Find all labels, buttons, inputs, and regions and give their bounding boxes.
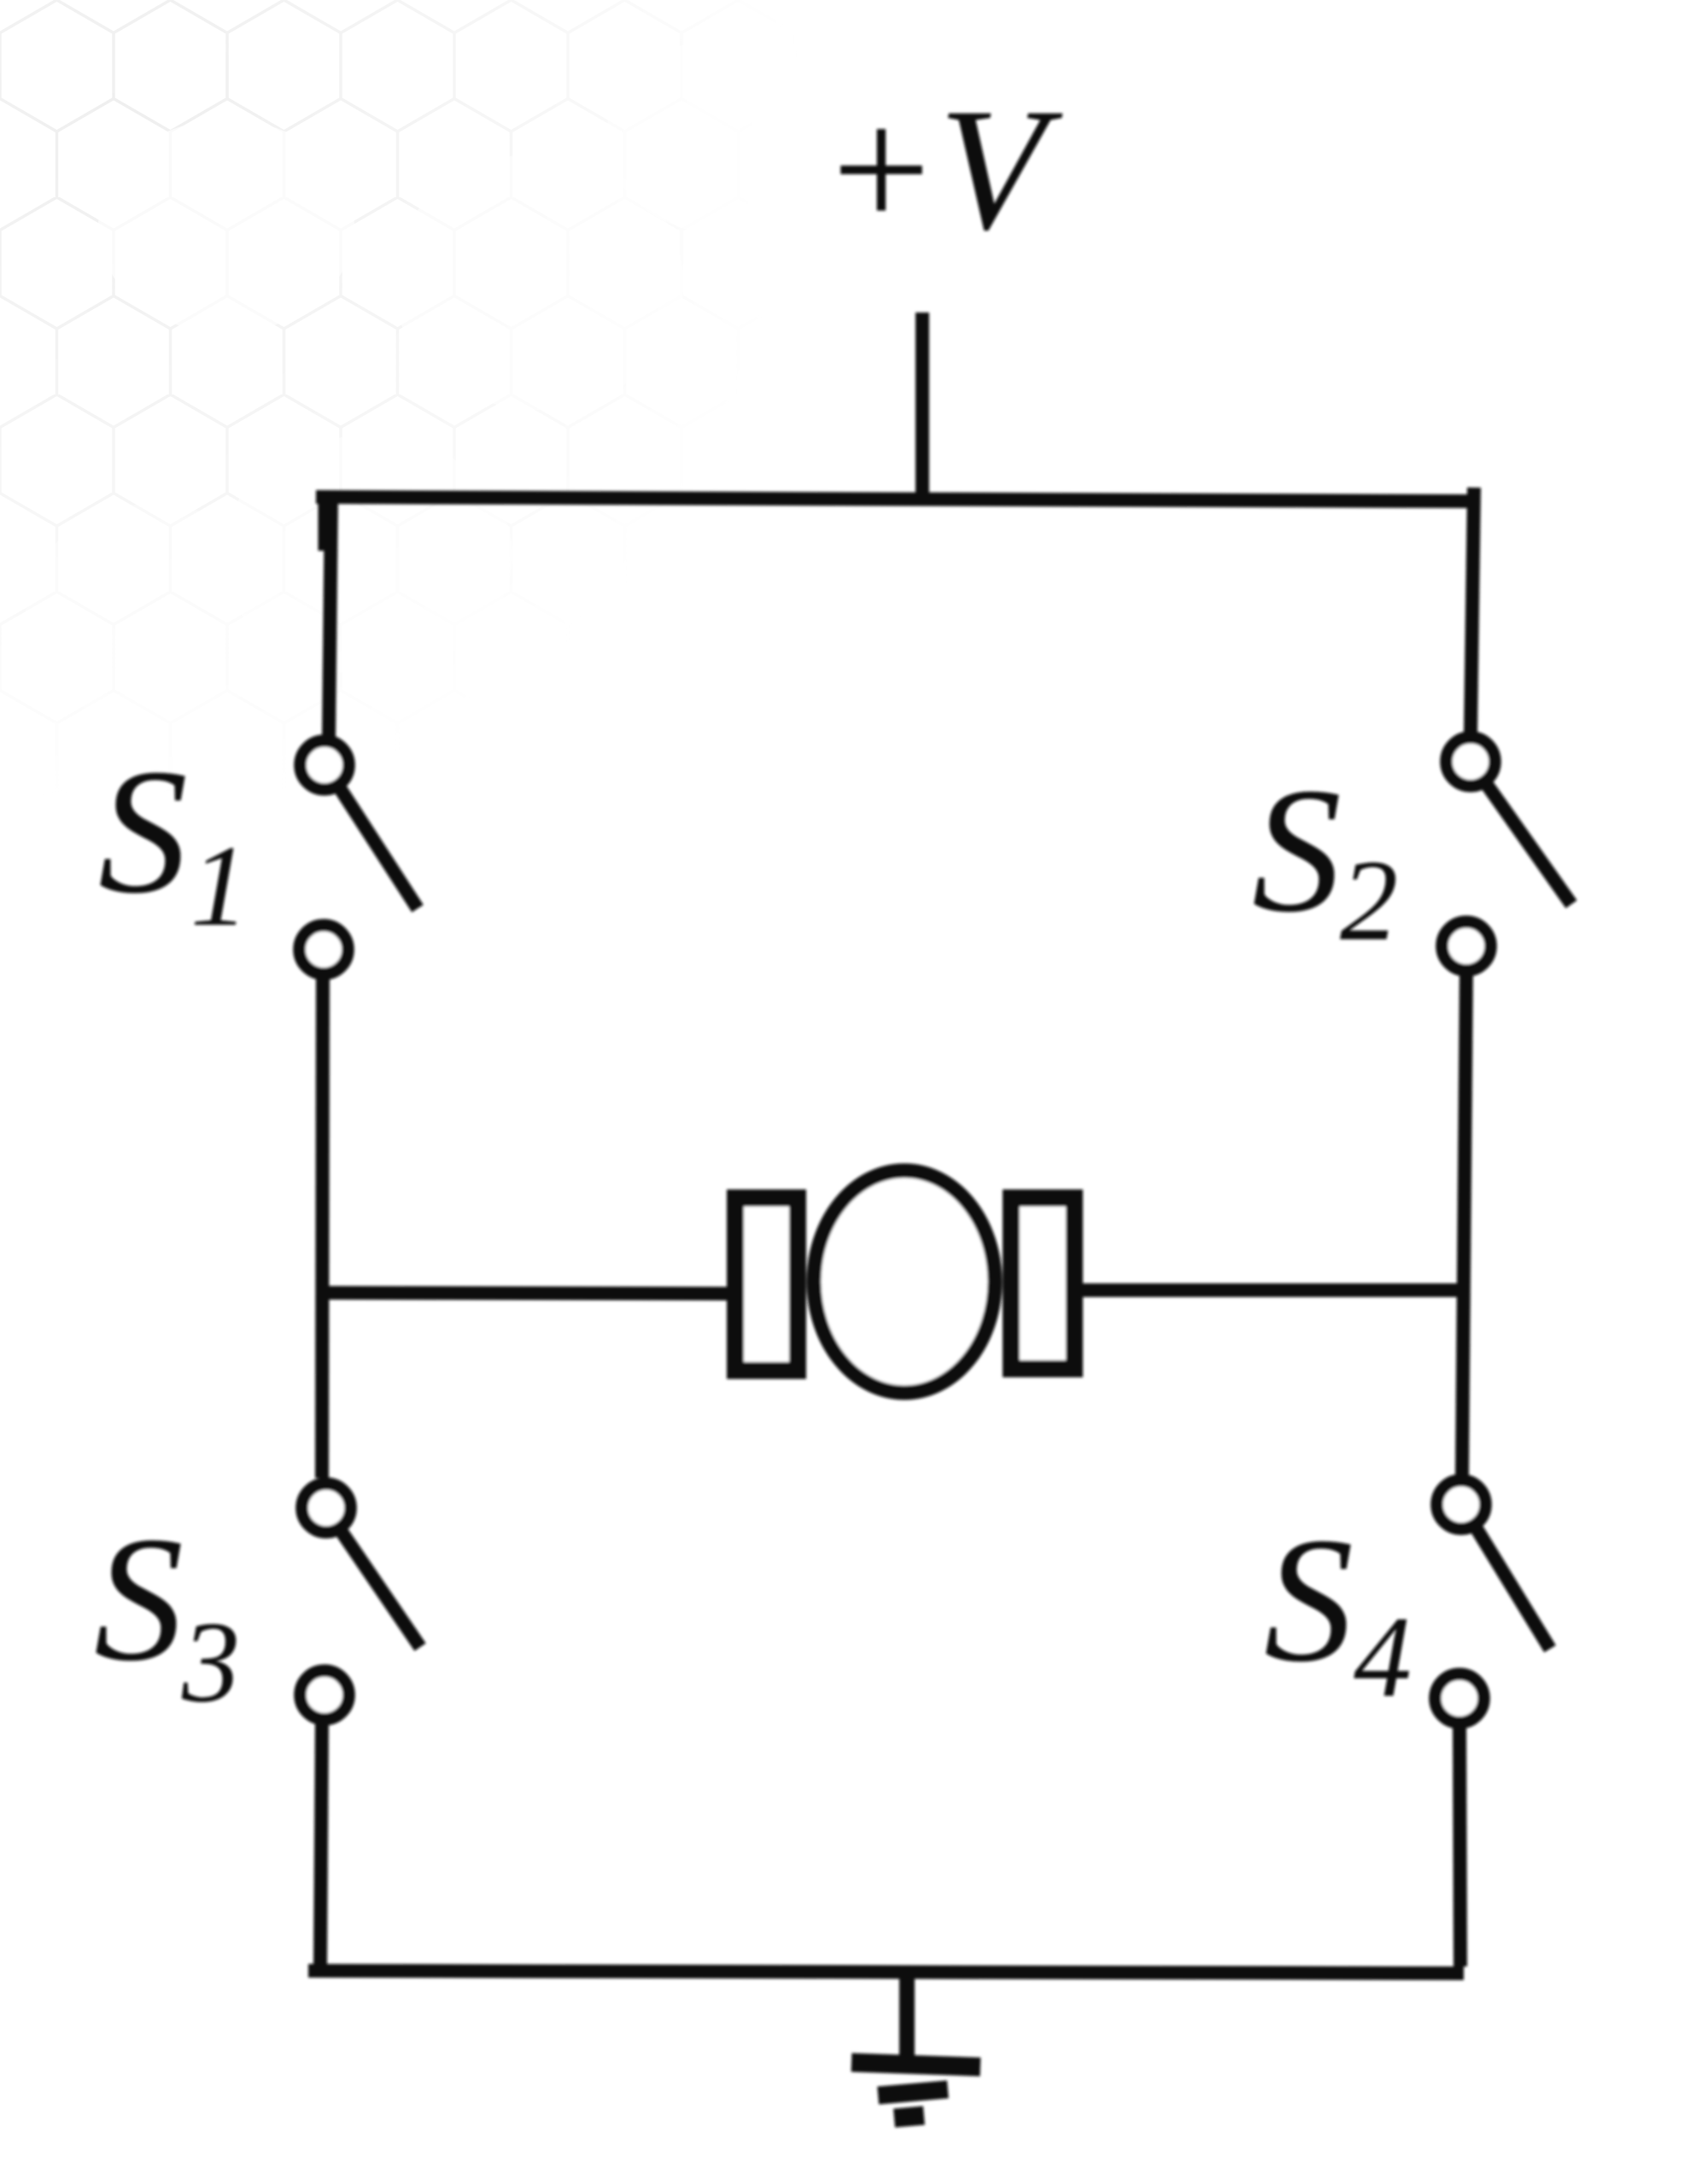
svg-text:+V: +V	[821, 73, 1062, 266]
svg-text:S: S	[98, 733, 188, 931]
svg-text:S: S	[1252, 751, 1342, 950]
svg-text:2: 2	[1340, 837, 1398, 965]
svg-text:S: S	[1264, 1501, 1354, 1699]
svg-text:3: 3	[181, 1598, 240, 1727]
svg-text:S: S	[94, 1500, 184, 1698]
svg-text:4: 4	[1354, 1593, 1412, 1721]
svg-text:1: 1	[190, 822, 249, 950]
